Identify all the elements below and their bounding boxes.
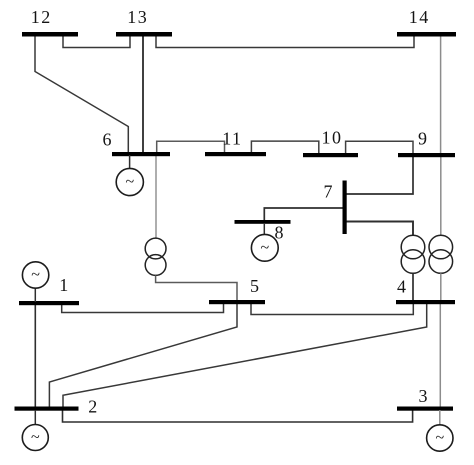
wire line 3-4 [439,303,441,408]
svg-text:~: ~ [31,267,40,284]
svg-text:11: 11 [222,128,242,148]
generator G2 [22,425,48,451]
bus 2 bar [15,407,79,411]
generator G2 stub [34,410,36,425]
wire line 13-6 [142,35,144,153]
bus 10 bar [303,153,358,157]
bus 8 bar [235,220,291,224]
transformer T56 circle 1 [145,238,166,259]
svg-text:7: 7 [324,182,333,202]
wire line 14-9 [440,35,442,154]
bus 3 bar [397,407,453,411]
bus 11 bar [205,152,266,156]
generator G8 [251,234,278,261]
svg-text:9: 9 [418,129,427,149]
wire line 1-2 [34,303,36,408]
transformer T47 circle 2 [401,250,425,274]
svg-text:2: 2 [88,397,97,417]
wire line 9-7 [345,156,413,194]
wire line 12-13 [63,35,130,48]
svg-text:~: ~ [125,174,134,191]
wire line 6-11 [157,141,225,153]
svg-text:3: 3 [419,386,428,406]
wire bus6 to transformer 5-6 [155,155,157,238]
svg-text:14: 14 [409,7,430,27]
bus 13 bar [116,32,172,37]
svg-text:6: 6 [103,129,112,149]
transformer T94 circle 2 [429,250,453,274]
transformer T56 circle 2 [145,255,166,276]
generator G3 [427,425,453,451]
wire transformer T94 to bus 4 [440,273,442,302]
wire line 4-5 [251,303,413,315]
svg-text:4: 4 [397,277,406,297]
svg-text:~: ~ [31,429,40,446]
generator G1 stub [34,288,36,302]
generator G1 [22,262,48,288]
generator G8 stub [263,223,265,235]
bus 6 bar [112,152,170,156]
wire bus9 to transformer 9-4 [440,156,442,235]
bus 1 bar [19,301,79,305]
svg-text:1: 1 [59,275,68,295]
generator G3 stub [439,410,441,426]
transformer T47 circle 1 [401,235,425,259]
wire line 2-3 [63,410,413,422]
wire line 12-6 [35,35,128,153]
generator G6 [116,168,143,195]
wire line 2-5 [49,303,237,408]
wire line 2-4 [63,303,427,408]
bus 4 bar [396,300,455,304]
bus 14 bar [397,32,456,37]
svg-text:~: ~ [435,430,444,447]
generator G6 stub [129,155,131,169]
svg-text:10: 10 [322,128,343,148]
bus 7 bar (vertical) [343,181,347,235]
svg-text:8: 8 [275,223,284,243]
bus 12 bar [22,32,78,37]
wire line 7-8 [264,208,344,221]
bus 5 bar [209,300,265,304]
wire transformer T47 to bus 4 [412,273,414,302]
svg-text:~: ~ [260,239,269,256]
wire line 1-5 [62,303,224,313]
svg-text:12: 12 [31,7,52,27]
wire line 11-10 [251,141,318,154]
wire transformer T56 to bus 5 [156,275,237,301]
transformer T94 circle 1 [429,235,453,259]
wire bus7 to transformer 4-7 [345,222,413,236]
wire line 13-14 [156,35,414,48]
svg-text:5: 5 [250,276,259,296]
bus 9 bar [398,153,455,157]
svg-text:13: 13 [127,7,148,27]
wire line 10-9 [346,141,413,154]
